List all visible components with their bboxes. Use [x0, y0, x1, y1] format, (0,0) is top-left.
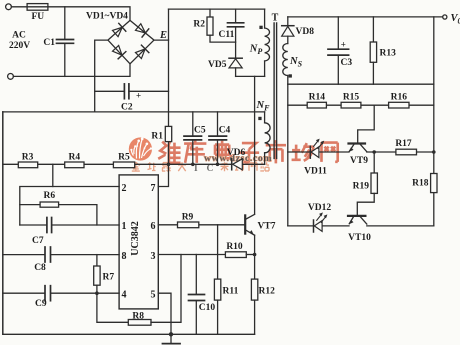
svg-text:R15: R15	[343, 92, 360, 102]
transformer primary NP	[264, 9, 266, 28]
diode VD6	[233, 159, 243, 170]
svg-text:T: T	[272, 13, 279, 24]
svg-text:VD6: VD6	[227, 148, 246, 158]
resistor R14	[307, 102, 326, 108]
svg-text:I: I	[194, 164, 198, 174]
diode VD4 bottom-right	[135, 45, 149, 59]
resistor R8	[128, 320, 151, 326]
resistor R2	[209, 9, 211, 17]
svg-text:R4: R4	[68, 152, 80, 162]
wire NF bottom to VD6 anode	[242, 163, 264, 165]
svg-text:VD8: VD8	[296, 27, 315, 37]
wire NP bottom down to VT7 collector	[254, 76, 256, 214]
svg-text:R14: R14	[309, 92, 326, 102]
resistor R16	[389, 102, 409, 108]
bridge rectifier VD1~VD4 frame	[108, 20, 154, 63]
svg-text:220V: 220V	[9, 41, 30, 51]
svg-text:NF: NF	[256, 100, 271, 113]
diode VD3 bottom-left	[112, 45, 126, 59]
svg-text:R11: R11	[223, 287, 239, 297]
junction node R17/R18	[432, 150, 436, 154]
svg-text:R9: R9	[182, 212, 194, 222]
svg-text:C9: C9	[35, 299, 47, 309]
resistor R10	[225, 252, 246, 258]
wire R8 left column	[97, 293, 128, 322]
wire VT9 collector row R17	[367, 151, 434, 153]
svg-text:C1: C1	[43, 38, 55, 48]
fuse FU	[27, 4, 48, 11]
wire indicator left border	[287, 84, 289, 226]
svg-text:VT7: VT7	[258, 221, 276, 231]
resistor R3	[18, 162, 37, 168]
wire pin8 row with C8	[3, 254, 45, 256]
transformer core	[273, 23, 275, 158]
secondary: wire NS column with VD8	[287, 17, 289, 26]
diode VD5	[229, 57, 242, 59]
svg-text:VD11: VD11	[304, 166, 327, 176]
diode VD2 top-right	[135, 23, 149, 37]
svg-text:R18: R18	[412, 179, 429, 189]
junction node R7/C9/R8	[95, 291, 99, 295]
wire VT7 emitter column to R12	[254, 235, 256, 279]
svg-text:7: 7	[151, 183, 156, 194]
svg-text:1: 1	[122, 221, 127, 232]
svg-text:C3: C3	[341, 58, 353, 68]
capacitor C2 electrolytic	[95, 90, 125, 92]
wire C10 column	[195, 255, 197, 295]
svg-text:8: 8	[122, 251, 127, 262]
svg-text:2: 2	[122, 183, 127, 194]
wire E column (DC+) down through C2, rail, to R1	[168, 9, 170, 126]
transistor VT10	[348, 215, 365, 217]
svg-text:R7: R7	[103, 273, 115, 283]
transistor VT9	[349, 142, 366, 144]
svg-text:R17: R17	[395, 139, 412, 149]
terminal AC input bottom	[8, 74, 14, 80]
wire R1 to pin7 of U1	[158, 142, 168, 187]
capacitor C10	[189, 294, 205, 296]
wire VT10 collector row	[367, 225, 434, 227]
wire primary ground rail	[3, 111, 265, 113]
svg-text:+: +	[341, 40, 346, 50]
capacitor C9	[44, 286, 46, 301]
resistor R9	[178, 222, 199, 228]
resistor R19	[373, 152, 375, 173]
svg-text:NP: NP	[249, 44, 263, 57]
svg-text:3: 3	[151, 251, 156, 262]
transistor VT7	[244, 215, 246, 233]
capacitor C3 electrolytic	[337, 17, 339, 49]
svg-text:V0: V0	[451, 13, 460, 26]
capacitor C4	[217, 112, 219, 136]
transformer feedback winding NF	[264, 112, 266, 123]
svg-text:R3: R3	[22, 152, 34, 162]
ground	[170, 334, 172, 343]
diode VD1 top-left	[112, 23, 126, 37]
capacitor C8	[44, 247, 46, 262]
svg-text:E: E	[159, 30, 167, 41]
svg-text:C8: C8	[34, 263, 46, 273]
wire	[11, 6, 27, 8]
svg-text:C10: C10	[199, 303, 216, 313]
capacitor C7	[20, 224, 47, 226]
wire pin1 row	[52, 224, 119, 226]
svg-text:C2: C2	[121, 103, 133, 113]
resistor R11	[214, 279, 220, 300]
svg-text:VD12: VD12	[308, 203, 331, 213]
wire VCC row with R3 R4 R5 C5 C4 junctions	[3, 163, 233, 165]
svg-text:6: 6	[151, 221, 156, 232]
resistor R12	[251, 279, 257, 300]
svg-text:C7: C7	[32, 236, 44, 246]
svg-text:R19: R19	[353, 181, 370, 191]
wire bridge left vertex down to C2 and ground rail	[95, 40, 108, 112]
svg-text:VD5: VD5	[208, 60, 227, 70]
svg-text:R6: R6	[43, 191, 55, 201]
resistor R5	[113, 162, 134, 168]
NF polarity dot	[258, 117, 261, 120]
svg-text:5: 5	[151, 289, 156, 300]
wire VT9 base tap	[358, 105, 375, 143]
svg-text:4: 4	[122, 289, 127, 300]
wire R8 right up to pin3 row	[151, 255, 181, 323]
junction node R10/VT7 emitter	[253, 253, 257, 257]
svg-text:FU: FU	[31, 12, 44, 22]
wire bottom ground line	[3, 333, 255, 335]
svg-text:VT10: VT10	[348, 233, 371, 243]
svg-text:R12: R12	[259, 287, 276, 297]
svg-text:R1: R1	[151, 132, 163, 142]
svg-text:C11: C11	[219, 30, 235, 40]
resistor R4	[65, 162, 84, 168]
junction dots VCC row	[167, 163, 171, 167]
resistor R13	[372, 17, 374, 42]
capacitor C1	[64, 7, 66, 39]
svg-text:R8: R8	[132, 311, 144, 321]
wire right border	[433, 17, 435, 226]
wire R19 to VT10 base	[357, 193, 374, 215]
LED VD12	[288, 225, 349, 227]
NS polarity dot	[289, 74, 292, 77]
svg-text:+: +	[136, 91, 141, 101]
svg-text:C5: C5	[194, 125, 206, 135]
diode VD8	[282, 25, 294, 27]
wire pin3 row	[158, 254, 225, 256]
svg-text:UC3842: UC3842	[130, 221, 141, 255]
terminal AC input top	[6, 4, 12, 10]
wire pin4 row with C9	[3, 292, 45, 294]
wire top AC1 to bridge top	[48, 7, 130, 21]
node E wire from bridge right vertex	[154, 39, 169, 41]
resistor R18	[431, 174, 437, 193]
junction node ground	[169, 332, 173, 336]
svg-text:R5: R5	[118, 152, 130, 162]
capacitor C11	[235, 9, 237, 23]
svg-text:R10: R10	[226, 242, 243, 252]
svg-text:VT9: VT9	[350, 156, 368, 166]
resistor R7	[96, 255, 98, 266]
transformer secondary NS	[283, 44, 288, 76]
capacitor C5	[192, 112, 194, 136]
svg-text:R2: R2	[193, 20, 205, 30]
wire left border	[2, 112, 4, 334]
resistor R6	[20, 204, 40, 206]
svg-text:C4: C4	[219, 125, 231, 135]
svg-text:R13: R13	[380, 49, 397, 59]
svg-text:C: C	[207, 164, 214, 174]
NP polarity dot	[259, 26, 262, 29]
wire R14 R15 R16 row	[288, 104, 434, 106]
wire top rail of switcher section	[169, 8, 265, 10]
svg-text:NS: NS	[289, 56, 303, 69]
wire pin5 to ground	[158, 293, 171, 334]
svg-text:R16: R16	[391, 92, 408, 102]
resistor R1	[165, 126, 171, 141]
wire secondary bottom rail	[288, 83, 434, 85]
svg-text:VD1~VD4: VD1~VD4	[86, 12, 128, 22]
wire AC2 to bridge bottom	[13, 64, 130, 77]
wire pin6 row to VT7 base	[158, 224, 245, 226]
LED VD11	[288, 151, 349, 153]
op-amp U1 UC3842 outline	[119, 175, 158, 309]
wire R11 column from pin6 row	[217, 225, 219, 279]
wire pin2 tap from R3/R4 junction	[52, 164, 54, 186]
wire pin2 row	[20, 187, 119, 226]
wire VD5 anode to NP bottom	[236, 75, 265, 77]
svg-text:AC: AC	[12, 31, 26, 41]
junction node R19 top	[372, 150, 376, 154]
wire V0 top rail	[288, 16, 443, 18]
resistor R17	[396, 149, 417, 155]
resistor R15	[341, 102, 361, 108]
terminal V0	[443, 15, 447, 19]
